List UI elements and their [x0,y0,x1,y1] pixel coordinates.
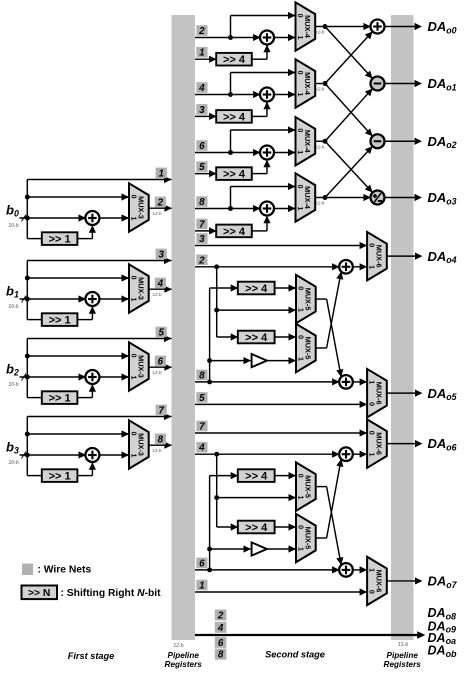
svg-text:3: 3 [199,234,205,245]
svg-text:>> 4: >> 4 [245,522,268,534]
svg-text:7: 7 [199,219,205,230]
svg-text:0: 0 [129,354,136,358]
svg-text:1: 1 [296,206,303,210]
svg-text:MUX-5: MUX-5 [303,337,312,360]
svg-text:>> 1: >> 1 [49,471,71,483]
svg-text:1: 1 [296,547,303,551]
svg-text:1: 1 [199,581,204,592]
svg-text:>> 4: >> 4 [245,283,268,295]
svg-text:12-b: 12-b [316,144,325,149]
svg-text:MUX-4: MUX-4 [303,186,312,210]
svg-text:MUX-3: MUX-3 [136,433,145,456]
svg-text:Pipeline: Pipeline [386,651,418,660]
svg-text:MUX-6: MUX-6 [374,570,383,593]
svg-text:8: 8 [218,650,224,661]
svg-text:12-b: 12-b [316,201,325,206]
svg-text:MUX-6: MUX-6 [374,382,383,405]
svg-text:4: 4 [198,83,205,94]
svg-text:0: 0 [296,71,303,75]
svg-text:2: 2 [217,611,224,622]
svg-text:>> 1: >> 1 [49,315,71,327]
svg-text:1: 1 [129,453,136,457]
svg-text:7: 7 [199,422,205,433]
svg-text:1: 1 [368,568,375,572]
svg-text:Pipeline: Pipeline [167,651,199,660]
svg-text:5: 5 [158,327,164,338]
svg-text:0: 0 [129,432,136,436]
svg-text:12-b: 12-b [316,30,325,35]
svg-text:MUX-4: MUX-4 [303,72,312,96]
svg-text:12-b: 12-b [316,87,325,92]
svg-text:1: 1 [368,453,375,457]
svg-text:MUX-6: MUX-6 [374,245,383,268]
svg-text:0: 0 [129,195,136,199]
svg-text:MUX-6: MUX-6 [374,432,383,455]
svg-text:MUX-4: MUX-4 [303,15,312,39]
svg-text:10-b: 10-b [8,460,18,466]
svg-text:Second stage: Second stage [265,650,325,660]
svg-text:>> 1: >> 1 [49,393,71,405]
svg-text:>> N: >> N [28,588,50,599]
svg-text:First stage: First stage [68,651,114,661]
svg-text:13-b: 13-b [398,642,408,648]
svg-text:6: 6 [158,356,164,367]
svg-text:>> 1: >> 1 [49,234,71,246]
svg-text:Registers: Registers [384,660,422,669]
svg-text:: Wire Nets: : Wire Nets [38,565,92,576]
svg-text:2: 2 [198,26,205,37]
svg-text:12-b: 12-b [173,643,183,649]
svg-text:>> 4: >> 4 [245,471,268,483]
svg-text:DAo0: DAo0 [428,19,457,35]
svg-text:8: 8 [158,434,164,445]
svg-text:2: 2 [157,197,164,208]
svg-text:1: 1 [296,308,303,312]
svg-text:2: 2 [198,255,205,266]
svg-text:0: 0 [296,335,303,339]
svg-text:0: 0 [296,128,303,132]
svg-text:12-b: 12-b [152,211,162,216]
svg-text:1: 1 [158,168,163,179]
svg-text:>> 4: >> 4 [223,54,246,66]
svg-text:8: 8 [199,197,205,208]
svg-text:>> 4: >> 4 [245,332,268,344]
svg-text:MUX-4: MUX-4 [303,130,312,154]
svg-text:10-b: 10-b [8,223,18,229]
svg-text:DAo3: DAo3 [428,190,457,206]
svg-text:: Shifting Right N-bit: : Shifting Right N-bit [61,588,162,599]
svg-text:Registers: Registers [165,660,203,669]
svg-text:1: 1 [296,496,303,500]
svg-text:0: 0 [296,474,303,478]
svg-text:4: 4 [157,278,164,289]
svg-text:0: 0 [368,431,375,435]
svg-text:6: 6 [218,638,224,649]
svg-text:4: 4 [217,623,224,634]
svg-text:DAo1: DAo1 [428,76,457,92]
svg-text:1: 1 [129,216,136,220]
svg-text:0: 0 [368,590,375,594]
svg-text:8: 8 [199,370,205,381]
svg-text:b0: b0 [6,202,19,218]
svg-text:10-b: 10-b [8,304,18,310]
svg-text:b1: b1 [6,283,19,299]
svg-text:MUX-3: MUX-3 [136,277,145,300]
svg-text:10-b: 10-b [8,382,18,388]
svg-text:MUX-5: MUX-5 [303,288,312,311]
svg-text:7: 7 [158,405,164,416]
svg-text:b3: b3 [6,439,19,455]
svg-text:DAo5: DAo5 [428,386,457,402]
svg-text:3: 3 [158,249,164,260]
svg-text:b2: b2 [6,361,19,377]
svg-text:DAo6: DAo6 [428,436,457,452]
svg-text:DAo2: DAo2 [428,134,457,150]
svg-text:3: 3 [199,105,205,116]
svg-text:0: 0 [296,525,303,529]
svg-text:0: 0 [296,14,303,18]
svg-text:MUX-5: MUX-5 [303,527,312,550]
svg-text:>> 4: >> 4 [223,169,246,181]
svg-text:0: 0 [296,185,303,189]
svg-text:DAo7: DAo7 [428,574,458,590]
svg-text:5: 5 [199,393,205,404]
svg-text:12-b: 12-b [152,292,162,297]
svg-text:1: 1 [296,357,303,361]
svg-text:1: 1 [129,375,136,379]
svg-text:1: 1 [129,297,136,301]
svg-text:5: 5 [199,162,205,173]
svg-text:0: 0 [368,402,375,406]
svg-text:DAo4: DAo4 [428,249,457,265]
svg-text:0: 0 [296,286,303,290]
svg-text:>> 4: >> 4 [223,226,246,238]
svg-text:1: 1 [368,265,375,269]
svg-text:6: 6 [199,558,205,569]
svg-text:0: 0 [129,276,136,280]
svg-text:>> 4: >> 4 [223,111,246,123]
svg-text:6: 6 [199,141,205,152]
svg-text:1: 1 [199,48,204,59]
svg-text:1: 1 [296,35,303,39]
svg-text:12-b: 12-b [152,448,162,453]
svg-text:12-b: 12-b [152,370,162,375]
svg-text:MUX-5: MUX-5 [303,475,312,498]
svg-text:0: 0 [368,243,375,247]
svg-text:4: 4 [198,443,205,454]
svg-text:MUX-3: MUX-3 [136,355,145,378]
svg-text:MUX-3: MUX-3 [136,196,145,219]
svg-text:1: 1 [296,150,303,154]
svg-text:1: 1 [296,92,303,96]
svg-text:1: 1 [368,380,375,384]
